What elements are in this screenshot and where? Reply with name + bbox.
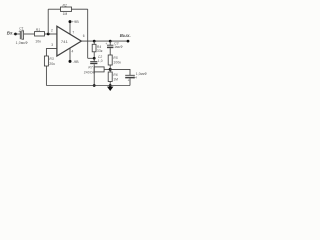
junction node C — [109, 68, 112, 71]
wire node B to C2 — [93, 58, 95, 61]
wire R7 to node C — [104, 68, 110, 70]
node -9В supply terminal — [69, 60, 72, 63]
node output terminal Вых — [127, 40, 130, 43]
svg-text:Вых.: Вых. — [120, 33, 131, 38]
wire C3 to R5 — [109, 48, 111, 55]
svg-text:3: 3 — [51, 43, 53, 47]
wire output node to R4 — [93, 41, 95, 44]
svg-text:1,0: 1,0 — [98, 59, 103, 63]
junction node C3 top on output wire — [109, 40, 112, 43]
svg-text:4: 4 — [72, 49, 74, 53]
wire output node to C3 — [109, 41, 111, 45]
node input terminal Вх — [14, 33, 17, 36]
junction node R6 on ground bus — [109, 84, 112, 87]
svg-text:R1: R1 — [36, 28, 41, 32]
pin 7 wire (V+) — [69, 22, 71, 35]
wire C4 to ground bus — [129, 78, 131, 85]
svg-text:R3: R3 — [49, 57, 54, 61]
svg-text:1,0мкФ: 1,0мкФ — [16, 41, 28, 45]
resistor R4 — [92, 44, 96, 52]
wire feedback top right segment — [72, 8, 88, 10]
svg-text:100к: 100к — [113, 60, 121, 64]
svg-text:+: + — [105, 42, 107, 46]
svg-text:Вх.: Вх. — [7, 30, 14, 35]
svg-text:6: 6 — [83, 34, 85, 38]
wire C2 down to ground bus — [93, 64, 95, 85]
svg-text:R7: R7 — [88, 66, 92, 70]
svg-text:R2: R2 — [63, 3, 68, 7]
svg-text:R6: R6 — [113, 73, 117, 77]
svg-text:10к: 10к — [35, 40, 41, 44]
wire input terminal to C1 — [16, 33, 21, 35]
wire C1 to R1 — [24, 33, 35, 35]
wire node A up to feedback branch — [47, 9, 49, 34]
svg-text:2: 2 — [51, 28, 53, 32]
wire R4 to node B — [93, 52, 95, 59]
resistor R7 — [94, 67, 104, 72]
junction node A (inverting input) — [47, 33, 50, 36]
wire output from pin 6 — [81, 40, 128, 42]
svg-text:+: + — [128, 79, 130, 83]
wire op-amp pin 3 to R3 — [46, 49, 57, 56]
capacitor C3 (polarized) — [107, 45, 113, 47]
wire R6 to ground bus — [109, 82, 111, 86]
pin 4 wire (V-) — [69, 48, 71, 61]
wire node C to C4 — [110, 69, 130, 75]
junction node R4 top on output wire — [93, 40, 96, 43]
resistor R2 (feedback) — [61, 7, 72, 11]
resistor R5 — [108, 55, 112, 65]
junction node B — [93, 57, 96, 60]
svg-text:1М: 1М — [113, 77, 118, 81]
wire feedback to node B — [88, 57, 95, 59]
svg-text:1мкФ: 1мкФ — [114, 45, 123, 49]
svg-text:741: 741 — [61, 39, 69, 44]
svg-text:7: 7 — [72, 30, 74, 34]
junction node C2 on ground bus — [93, 84, 96, 87]
capacitor C1 (polarized) — [20, 31, 23, 39]
capacitor C4 (polarized) — [125, 75, 135, 77]
svg-text:-9В: -9В — [73, 60, 80, 64]
capacitor C2 — [90, 62, 97, 64]
svg-text:1М: 1М — [63, 12, 68, 16]
wire R3 to ground bus — [45, 66, 47, 86]
svg-text:+9В: +9В — [72, 20, 79, 24]
svg-text:1,0мкФ: 1,0мкФ — [136, 72, 148, 76]
svg-text:240Ом: 240Ом — [84, 71, 96, 75]
resistor R1 — [35, 32, 45, 36]
svg-text:20к: 20к — [49, 62, 55, 66]
wire R1 to op-amp pin 2 — [45, 33, 58, 35]
resistor R6 — [108, 72, 112, 82]
wire feedback top left segment — [48, 8, 60, 10]
wire ground bus — [46, 85, 130, 87]
wire feedback down segment — [87, 9, 89, 58]
ground — [107, 87, 113, 91]
op-amp U1 741 — [57, 26, 81, 56]
svg-text:С1: С1 — [19, 27, 24, 31]
wire node C to R6 — [109, 69, 111, 72]
wire R5 to node C — [109, 65, 111, 69]
svg-text:33к: 33к — [97, 49, 103, 53]
node +9В supply terminal — [69, 20, 72, 23]
svg-text:R5: R5 — [113, 56, 117, 60]
resistor R3 — [44, 56, 48, 66]
